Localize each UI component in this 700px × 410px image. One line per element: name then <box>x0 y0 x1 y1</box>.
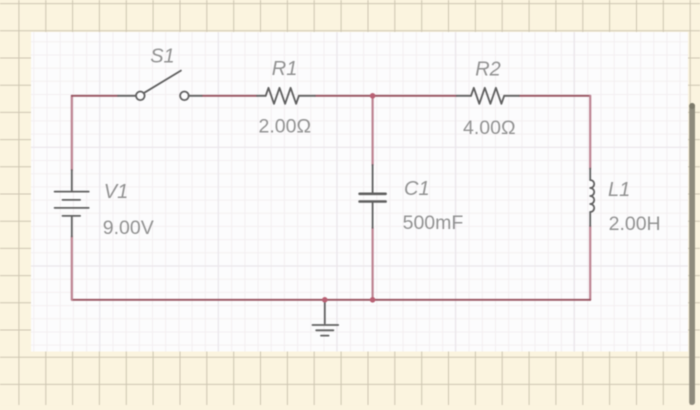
wire: bottom rail <box>72 299 590 301</box>
resistor R2 <box>457 88 519 104</box>
svg-text:R2: R2 <box>475 59 501 81</box>
inductor L1 <box>590 169 594 227</box>
svg-text:9.00V: 9.00V <box>103 217 154 239</box>
wire: C1 bottom lead to bottom rail <box>372 228 374 300</box>
svg-text:2.00Ω: 2.00Ω <box>259 116 312 138</box>
svg-text:V1: V1 <box>104 181 128 203</box>
wire: R2 to top-right corner down to L1 <box>519 95 590 97</box>
svg-text:S1: S1 <box>150 46 174 68</box>
wire: R1 to R2 through node A <box>315 95 457 97</box>
node: C1 bottom junction dot <box>370 297 376 303</box>
wire: C1 top lead to node A <box>372 96 374 165</box>
svg-text:L1: L1 <box>608 179 630 201</box>
wire: L1 bottom to bottom-right corner <box>589 226 591 300</box>
wire: battery bottom to bottom-left corner <box>71 237 73 300</box>
wire: switch to R1 <box>202 95 257 97</box>
capacitor C1 <box>360 165 386 228</box>
resistor R1 <box>257 88 315 104</box>
svg-text:R1: R1 <box>272 58 298 80</box>
scrollbar thumb <box>689 103 695 405</box>
svg-text:4.00Ω: 4.00Ω <box>463 117 516 139</box>
svg-text:C1: C1 <box>404 178 430 200</box>
node: ground junction dot <box>322 297 328 303</box>
battery V1 <box>55 170 89 237</box>
node A (top junction dot) <box>370 93 376 99</box>
switch S1 <box>118 71 202 101</box>
svg-text:2.00H: 2.00H <box>609 213 661 235</box>
wire: top-left from battery top corner to switch <box>71 96 73 170</box>
wire <box>72 95 118 97</box>
wire <box>589 96 591 169</box>
ground <box>313 300 339 336</box>
canvas <box>31 32 688 352</box>
svg-text:500mF: 500mF <box>403 212 464 234</box>
